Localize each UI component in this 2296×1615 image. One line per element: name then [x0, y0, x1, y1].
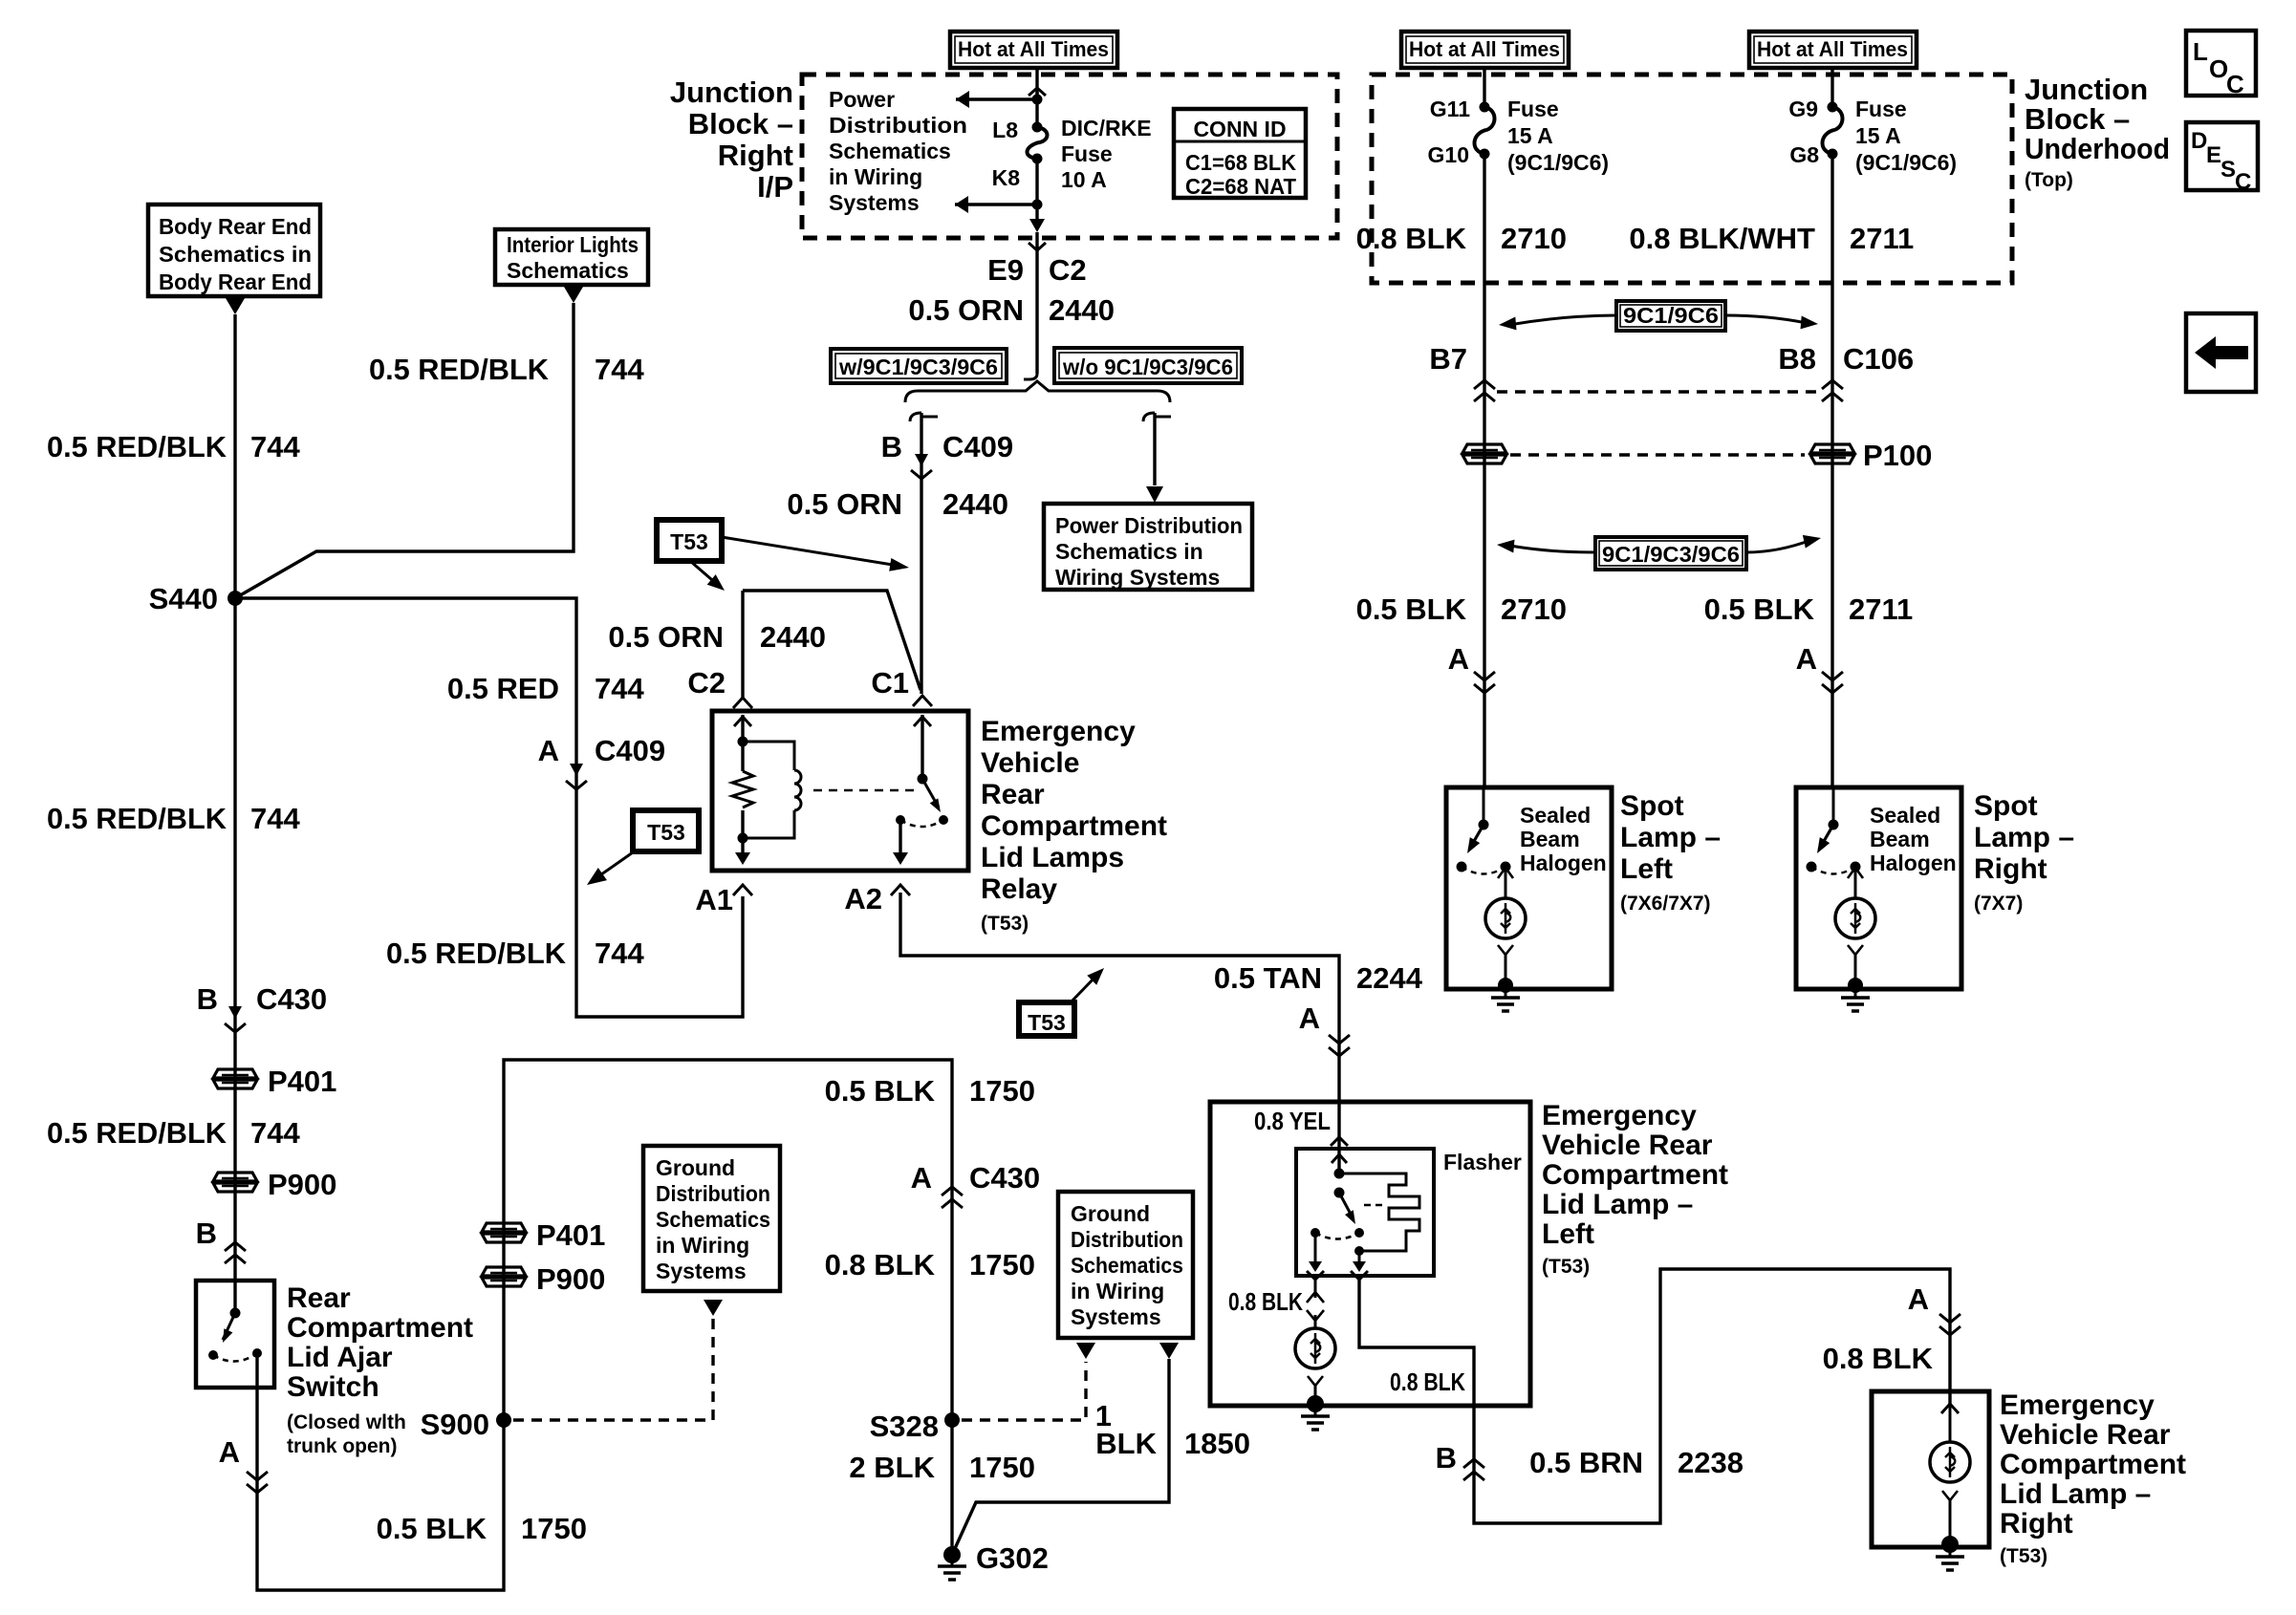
svg-text:Distribution: Distribution	[656, 1181, 770, 1206]
svg-text:744: 744	[250, 802, 300, 835]
svg-text:0.8 BLK: 0.8 BLK	[1356, 222, 1467, 255]
svg-text:C430: C430	[256, 982, 327, 1016]
svg-text:Vehicle Rear: Vehicle Rear	[2000, 1419, 2171, 1451]
svg-text:Block –: Block –	[2025, 102, 2130, 136]
svg-text:(Closed wlth: (Closed wlth	[287, 1411, 406, 1433]
svg-text:2710: 2710	[1501, 592, 1567, 626]
svg-text:0.5 BLK: 0.5 BLK	[1704, 592, 1815, 626]
svg-text:(7X6/7X7): (7X6/7X7)	[1620, 893, 1711, 915]
svg-text:0.8 BLK: 0.8 BLK	[1390, 1367, 1465, 1396]
svg-text:S440: S440	[149, 582, 218, 615]
svg-text:2711: 2711	[1849, 592, 1913, 626]
svg-text:B8: B8	[1778, 342, 1816, 376]
svg-text:P401: P401	[536, 1218, 605, 1252]
svg-text:744: 744	[250, 430, 300, 463]
svg-text:D: D	[2191, 128, 2207, 154]
svg-text:15 A: 15 A	[1855, 123, 1901, 148]
svg-text:A: A	[219, 1435, 240, 1469]
svg-text:1750: 1750	[969, 1074, 1035, 1108]
svg-text:G9: G9	[1788, 97, 1818, 121]
svg-text:0.8 BLK/WHT: 0.8 BLK/WHT	[1629, 222, 1815, 255]
svg-text:E: E	[2206, 142, 2221, 168]
svg-text:P100: P100	[1863, 439, 1932, 472]
svg-text:Systems: Systems	[656, 1259, 747, 1283]
svg-text:Distribution: Distribution	[829, 113, 967, 138]
svg-text:G302: G302	[976, 1541, 1049, 1575]
svg-text:A: A	[1448, 642, 1469, 676]
svg-text:C430: C430	[969, 1161, 1040, 1195]
svg-text:Right: Right	[2000, 1508, 2073, 1540]
svg-text:C: C	[2235, 169, 2251, 195]
svg-text:C1: C1	[871, 666, 909, 700]
svg-text:Sealed: Sealed	[1870, 803, 1940, 828]
svg-text:K8: K8	[992, 165, 1021, 190]
svg-text:(T53): (T53)	[2000, 1545, 2047, 1567]
svg-text:P401: P401	[268, 1065, 336, 1098]
svg-text:1750: 1750	[969, 1451, 1035, 1484]
svg-text:S: S	[2220, 157, 2236, 183]
svg-text:Switch: Switch	[287, 1371, 379, 1403]
svg-text:C2: C2	[687, 666, 726, 700]
svg-text:Fuse: Fuse	[1855, 97, 1907, 121]
svg-text:Systems: Systems	[1071, 1304, 1161, 1329]
svg-text:744: 744	[595, 672, 644, 705]
svg-text:DIC/RKE: DIC/RKE	[1061, 116, 1152, 140]
svg-text:CONN ID: CONN ID	[1193, 117, 1286, 141]
svg-text:1750: 1750	[521, 1512, 587, 1545]
svg-text:1750: 1750	[969, 1248, 1035, 1281]
svg-text:Rear: Rear	[981, 779, 1045, 810]
svg-text:Power: Power	[829, 87, 895, 112]
svg-text:Lid Lamps: Lid Lamps	[981, 842, 1124, 873]
svg-text:Schematics: Schematics	[829, 139, 951, 163]
svg-text:P900: P900	[536, 1262, 605, 1296]
svg-text:0.5 BLK: 0.5 BLK	[1356, 592, 1467, 626]
svg-text:C409: C409	[595, 734, 665, 767]
svg-text:Halogen: Halogen	[1870, 851, 1957, 875]
svg-text:744: 744	[595, 353, 644, 386]
svg-text:Emergency: Emergency	[1542, 1100, 1697, 1131]
svg-text:Schematics: Schematics	[1071, 1253, 1183, 1278]
svg-text:B: B	[197, 982, 218, 1016]
svg-text:Lamp –: Lamp –	[1620, 822, 1721, 853]
svg-text:Schematics in: Schematics in	[1055, 539, 1203, 564]
svg-text:A1: A1	[695, 883, 733, 916]
svg-text:BLK: BLK	[1095, 1427, 1157, 1460]
svg-text:0.5 ORN: 0.5 ORN	[787, 487, 902, 521]
svg-text:0.8 BLK: 0.8 BLK	[1228, 1287, 1303, 1316]
svg-text:0.5 RED/BLK: 0.5 RED/BLK	[386, 937, 567, 970]
svg-text:G11: G11	[1430, 97, 1470, 121]
svg-text:Lamp –: Lamp –	[1974, 822, 2074, 853]
svg-text:Fuse: Fuse	[1507, 97, 1559, 121]
svg-text:Right: Right	[718, 139, 793, 172]
svg-text:(T53): (T53)	[981, 913, 1029, 935]
svg-text:in Wiring: in Wiring	[829, 164, 922, 189]
svg-text:Interior Lights: Interior Lights	[507, 232, 639, 257]
svg-text:Hot at All Times: Hot at All Times	[1757, 37, 1908, 61]
svg-text:Lid Ajar: Lid Ajar	[287, 1342, 393, 1373]
svg-text:Right: Right	[1974, 853, 2047, 885]
svg-text:0.5 RED/BLK: 0.5 RED/BLK	[47, 1116, 227, 1150]
svg-text:Vehicle: Vehicle	[981, 747, 1079, 779]
svg-text:Compartment: Compartment	[287, 1312, 473, 1344]
svg-text:C2=68 NAT: C2=68 NAT	[1185, 174, 1296, 199]
svg-text:15 A: 15 A	[1507, 123, 1553, 148]
svg-text:2238: 2238	[1678, 1446, 1744, 1479]
svg-text:2440: 2440	[942, 487, 1008, 521]
svg-text:10 A: 10 A	[1061, 167, 1107, 192]
svg-text:L: L	[2193, 37, 2208, 66]
svg-text:9C1/9C6: 9C1/9C6	[1623, 303, 1719, 328]
svg-text:C409: C409	[942, 430, 1013, 463]
svg-text:C: C	[2226, 70, 2244, 98]
svg-text:(T53): (T53)	[1542, 1256, 1590, 1278]
svg-text:Systems: Systems	[829, 190, 920, 215]
svg-text:Lid Lamp –: Lid Lamp –	[1542, 1189, 1693, 1220]
svg-text:Schematics in: Schematics in	[159, 242, 312, 267]
svg-text:0.8 BLK: 0.8 BLK	[1823, 1342, 1934, 1375]
svg-text:(Top): (Top)	[2025, 169, 2073, 191]
svg-text:Junction: Junction	[2025, 73, 2148, 106]
svg-text:Emergency: Emergency	[981, 716, 1136, 747]
svg-text:in Wiring: in Wiring	[656, 1233, 749, 1258]
svg-text:Sealed: Sealed	[1520, 803, 1591, 828]
svg-text:1850: 1850	[1184, 1427, 1250, 1460]
svg-text:Compartment: Compartment	[981, 810, 1167, 842]
svg-text:A: A	[1908, 1282, 1929, 1316]
svg-text:Vehicle Rear: Vehicle Rear	[1542, 1130, 1713, 1161]
svg-text:744: 744	[250, 1116, 300, 1150]
svg-text:w/9C1/9C3/9C6: w/9C1/9C3/9C6	[838, 355, 998, 379]
svg-text:Underhood: Underhood	[2025, 132, 2170, 165]
svg-text:(9C1/9C6): (9C1/9C6)	[1855, 150, 1957, 175]
svg-text:C1=68 BLK: C1=68 BLK	[1185, 150, 1296, 175]
svg-text:Hot at All Times: Hot at All Times	[1409, 37, 1560, 61]
svg-text:Spot: Spot	[1974, 790, 2038, 822]
svg-text:Power Distribution: Power Distribution	[1055, 513, 1243, 538]
svg-text:B: B	[1436, 1441, 1457, 1475]
svg-text:9C1/9C3/9C6: 9C1/9C3/9C6	[1602, 542, 1740, 567]
svg-text:0.5 BRN: 0.5 BRN	[1529, 1446, 1643, 1479]
svg-text:A: A	[1299, 1001, 1320, 1035]
svg-text:in Wiring: in Wiring	[1071, 1279, 1164, 1303]
svg-text:0.5 RED/BLK: 0.5 RED/BLK	[369, 353, 550, 386]
svg-text:0.5 BLK: 0.5 BLK	[377, 1512, 487, 1545]
svg-text:Flasher: Flasher	[1443, 1150, 1522, 1174]
svg-text:P900: P900	[268, 1168, 336, 1201]
svg-text:0.5 ORN: 0.5 ORN	[608, 620, 724, 654]
svg-text:Halogen: Halogen	[1520, 851, 1607, 875]
svg-text:0.5 BLK: 0.5 BLK	[825, 1074, 936, 1108]
svg-text:(7X7): (7X7)	[1974, 893, 2023, 915]
svg-text:2 BLK: 2 BLK	[849, 1451, 935, 1484]
svg-text:0.5 TAN: 0.5 TAN	[1214, 961, 1322, 995]
svg-text:E9: E9	[987, 253, 1024, 287]
svg-text:Emergency: Emergency	[2000, 1389, 2155, 1421]
svg-text:Spot: Spot	[1620, 790, 1684, 822]
svg-text:S900: S900	[421, 1408, 489, 1441]
svg-text:Beam: Beam	[1520, 827, 1580, 851]
svg-text:Schematics: Schematics	[656, 1207, 770, 1232]
svg-text:T53: T53	[670, 529, 708, 554]
svg-text:Schematics: Schematics	[507, 258, 629, 283]
svg-text:Ground: Ground	[656, 1155, 735, 1180]
svg-text:Compartment: Compartment	[1542, 1159, 1728, 1191]
svg-text:2244: 2244	[1356, 961, 1423, 995]
svg-text:2440: 2440	[1049, 293, 1115, 327]
svg-text:L8: L8	[992, 118, 1018, 142]
svg-text:trunk open): trunk open)	[287, 1435, 398, 1457]
svg-text:Beam: Beam	[1870, 827, 1930, 851]
svg-text:Ground: Ground	[1071, 1201, 1150, 1226]
svg-text:0.8 BLK: 0.8 BLK	[825, 1248, 936, 1281]
svg-text:G8: G8	[1789, 142, 1819, 167]
svg-text:Hot at All Times: Hot at All Times	[958, 37, 1109, 61]
svg-text:Compartment: Compartment	[2000, 1449, 2186, 1480]
svg-text:0.5 RED: 0.5 RED	[447, 672, 559, 705]
svg-text:Fuse: Fuse	[1061, 141, 1113, 166]
svg-text:Wiring Systems: Wiring Systems	[1055, 565, 1220, 590]
svg-text:Lid Lamp –: Lid Lamp –	[2000, 1478, 2151, 1510]
svg-text:Left: Left	[1620, 853, 1673, 885]
svg-text:Relay: Relay	[981, 873, 1057, 905]
svg-text:A: A	[911, 1161, 932, 1195]
svg-text:0.5 ORN: 0.5 ORN	[908, 293, 1024, 327]
svg-text:A: A	[538, 734, 559, 767]
svg-text:w/o 9C1/9C3/9C6: w/o 9C1/9C3/9C6	[1062, 355, 1233, 379]
svg-text:Rear: Rear	[287, 1282, 351, 1314]
svg-text:S328: S328	[870, 1410, 939, 1443]
svg-text:0.8 YEL: 0.8 YEL	[1254, 1107, 1331, 1135]
svg-text:Distribution: Distribution	[1071, 1227, 1183, 1252]
svg-text:0.5 RED/BLK: 0.5 RED/BLK	[47, 430, 227, 463]
svg-text:B: B	[196, 1217, 217, 1250]
svg-text:Body Rear End: Body Rear End	[159, 269, 312, 294]
svg-text:I/P: I/P	[757, 170, 793, 204]
svg-text:Left: Left	[1542, 1218, 1594, 1250]
svg-text:A2: A2	[844, 882, 882, 915]
svg-text:B7: B7	[1429, 342, 1467, 376]
svg-text:0.5 RED/BLK: 0.5 RED/BLK	[47, 802, 227, 835]
svg-text:G10: G10	[1428, 142, 1469, 167]
svg-text:2710: 2710	[1501, 222, 1567, 255]
svg-text:2711: 2711	[1850, 222, 1914, 255]
svg-text:T53: T53	[1028, 1010, 1066, 1035]
svg-text:744: 744	[595, 937, 644, 970]
svg-text:T53: T53	[647, 820, 685, 845]
svg-text:Body Rear End: Body Rear End	[159, 214, 312, 239]
svg-text:Junction: Junction	[670, 75, 793, 109]
svg-text:2440: 2440	[760, 620, 826, 654]
svg-text:C106: C106	[1843, 342, 1914, 376]
svg-text:Block –: Block –	[688, 107, 793, 140]
svg-text:A: A	[1796, 642, 1817, 676]
svg-text:B: B	[881, 430, 902, 463]
svg-text:C2: C2	[1049, 253, 1087, 287]
svg-text:(9C1/9C6): (9C1/9C6)	[1507, 150, 1609, 175]
